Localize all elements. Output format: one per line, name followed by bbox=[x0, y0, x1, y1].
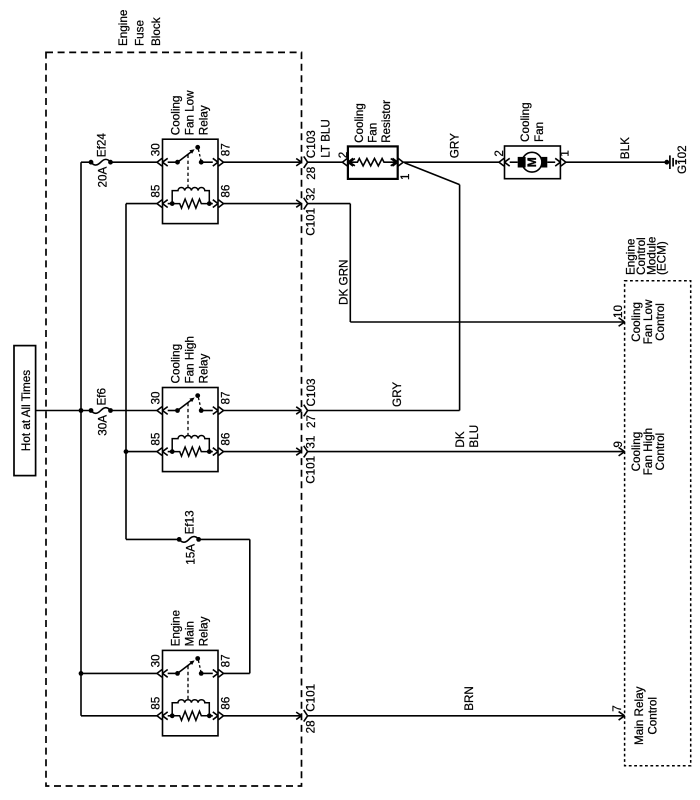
svg-text:BRN: BRN bbox=[463, 686, 476, 711]
svg-text:Cooling: Cooling bbox=[519, 102, 532, 142]
svg-text:7: 7 bbox=[611, 705, 624, 712]
svg-text:Fan: Fan bbox=[533, 122, 546, 142]
svg-text:31: 31 bbox=[305, 436, 318, 449]
svg-text:C101: C101 bbox=[305, 208, 318, 236]
svg-text:(ECM): (ECM) bbox=[656, 241, 669, 275]
svg-text:87: 87 bbox=[220, 143, 233, 156]
svg-text:BLU: BLU bbox=[468, 425, 481, 448]
svg-text:Control: Control bbox=[654, 433, 667, 471]
svg-text:Ef24: Ef24 bbox=[95, 133, 108, 158]
svg-text:Control: Control bbox=[654, 303, 667, 341]
svg-text:C101: C101 bbox=[305, 456, 318, 484]
svg-text:30: 30 bbox=[150, 654, 163, 668]
svg-text:85: 85 bbox=[150, 696, 163, 710]
svg-text:Main: Main bbox=[183, 621, 196, 646]
svg-text:28: 28 bbox=[305, 167, 318, 180]
svg-text:BLK: BLK bbox=[619, 137, 632, 159]
svg-text:10: 10 bbox=[612, 304, 625, 318]
svg-text:87: 87 bbox=[220, 654, 233, 667]
svg-text:Control: Control bbox=[647, 697, 660, 735]
svg-text:1: 1 bbox=[399, 173, 412, 180]
svg-text:86: 86 bbox=[220, 185, 233, 198]
svg-text:Fan Low: Fan Low bbox=[183, 90, 196, 135]
svg-text:27: 27 bbox=[305, 415, 318, 428]
svg-text:Cooling: Cooling bbox=[169, 96, 182, 136]
svg-text:Cooling: Cooling bbox=[169, 344, 182, 384]
svg-text:30: 30 bbox=[150, 143, 163, 157]
svg-text:Ef13: Ef13 bbox=[183, 510, 196, 534]
svg-text:86: 86 bbox=[220, 697, 233, 710]
svg-text:Hot at All Times: Hot at All Times bbox=[20, 370, 33, 451]
svg-text:Engine: Engine bbox=[169, 610, 182, 646]
svg-text:Engine: Engine bbox=[117, 10, 130, 46]
svg-text:Cooling: Cooling bbox=[353, 103, 366, 143]
svg-text:32: 32 bbox=[305, 188, 318, 201]
svg-text:86: 86 bbox=[220, 433, 233, 446]
svg-text:M: M bbox=[525, 157, 539, 167]
svg-text:2: 2 bbox=[337, 152, 350, 159]
svg-text:Resistor: Resistor bbox=[380, 100, 393, 143]
svg-text:GRY: GRY bbox=[449, 133, 462, 158]
svg-text:DK GRN: DK GRN bbox=[338, 260, 351, 305]
svg-text:DK: DK bbox=[454, 431, 467, 447]
svg-text:Relay: Relay bbox=[197, 353, 210, 383]
svg-text:C103: C103 bbox=[305, 130, 318, 158]
svg-text:Ef6: Ef6 bbox=[95, 388, 108, 406]
svg-text:30: 30 bbox=[150, 391, 163, 405]
svg-text:Fan High: Fan High bbox=[183, 336, 196, 383]
svg-text:15A: 15A bbox=[184, 544, 197, 565]
svg-text:C103: C103 bbox=[305, 379, 318, 407]
svg-text:Fuse: Fuse bbox=[134, 20, 147, 46]
svg-text:1: 1 bbox=[559, 150, 572, 157]
svg-text:Block: Block bbox=[150, 17, 163, 46]
svg-text:G102: G102 bbox=[676, 145, 689, 174]
svg-text:2: 2 bbox=[493, 150, 506, 157]
svg-text:Relay: Relay bbox=[197, 105, 210, 135]
svg-text:28: 28 bbox=[305, 720, 318, 733]
svg-text:Fan: Fan bbox=[367, 123, 380, 143]
svg-text:20A: 20A bbox=[96, 166, 109, 187]
svg-text:LT BLU: LT BLU bbox=[320, 119, 333, 158]
svg-text:GRY: GRY bbox=[391, 382, 404, 407]
svg-text:85: 85 bbox=[150, 184, 163, 198]
svg-text:Main Relay: Main Relay bbox=[633, 686, 646, 745]
svg-text:87: 87 bbox=[220, 391, 233, 404]
svg-text:Relay: Relay bbox=[197, 616, 210, 646]
svg-text:85: 85 bbox=[150, 432, 163, 446]
svg-text:30A: 30A bbox=[96, 415, 109, 436]
svg-text:9: 9 bbox=[612, 441, 625, 448]
svg-text:C101: C101 bbox=[305, 684, 318, 712]
